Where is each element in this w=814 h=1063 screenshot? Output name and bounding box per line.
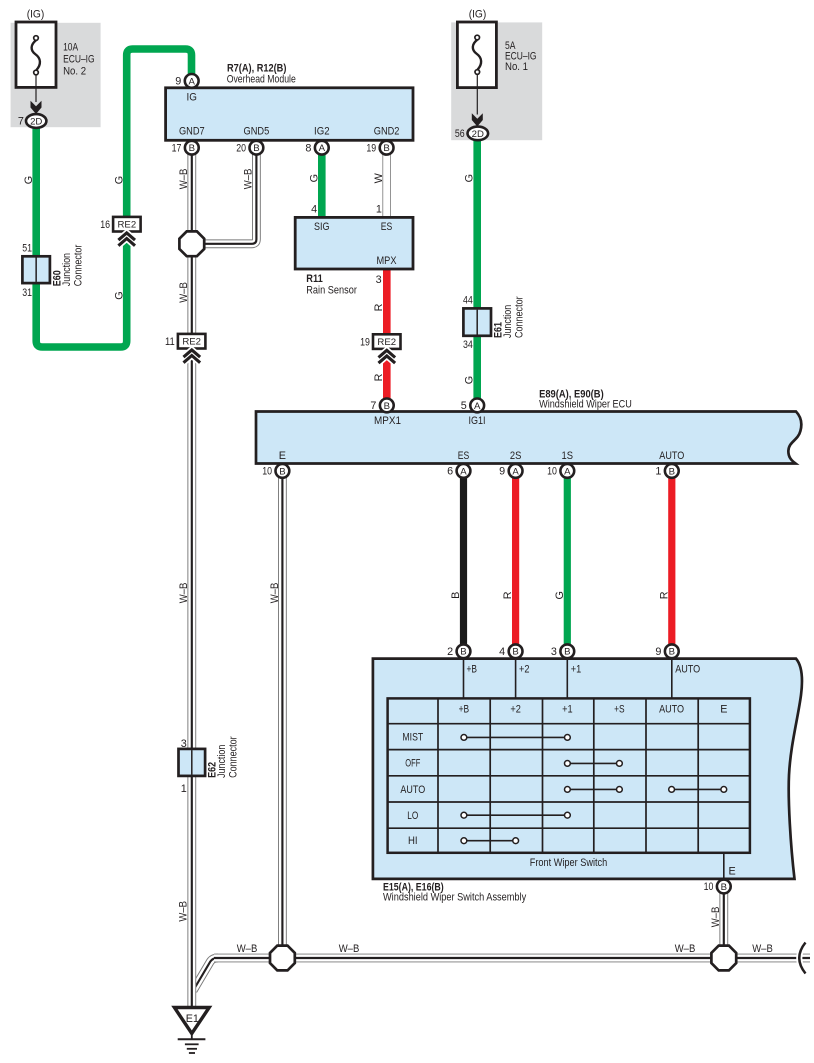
svg-text:SIG: SIG [314,221,330,233]
svg-text:IG1I: IG1I [469,415,486,427]
svg-text:Windshield Wiper Switch Assemb: Windshield Wiper Switch Assembly [383,891,527,903]
svg-text:B: B [460,647,466,658]
svg-text:HI: HI [408,835,418,847]
svg-text:1: 1 [376,204,382,216]
svg-text:11: 11 [165,336,175,348]
svg-text:4: 4 [499,646,505,658]
svg-text:4: 4 [311,204,317,216]
pin 9 A (overhead module top) [175,74,198,88]
wire G: fuse 2D(7) down, across, up through RE2(16), to Overhead Module pin 9A [36,49,191,347]
wire W-B: diagonal from bottom rail to ground wire [193,958,218,991]
svg-text:B: B [512,647,518,658]
windshield wiper ECU E89(A), E90(B) [256,388,801,463]
svg-text:Connector: Connector [72,244,84,286]
svg-text:E1: E1 [186,1013,199,1025]
pin 7 B (MPX1) [370,399,393,413]
svg-text:MPX: MPX [377,255,397,267]
svg-text:8: 8 [305,142,311,154]
pin 8 A (IG2) [305,141,328,155]
svg-text:W: W [373,172,385,183]
svg-text:AUTO: AUTO [659,704,684,716]
svg-text:17: 17 [172,142,182,154]
svg-text:GND7: GND7 [179,126,205,138]
svg-text:AUTO: AUTO [659,450,684,462]
pin 6 A (ES) [447,464,470,478]
svg-text:Rain Sensor: Rain Sensor [306,285,357,297]
fuse 10A ECU-IG No.2 [16,9,95,114]
svg-text:10: 10 [547,466,557,478]
svg-text:G: G [554,591,566,599]
svg-text:R: R [373,373,385,381]
pin 1 B (ECU AUTO) [655,464,678,478]
svg-text:44: 44 [463,294,473,306]
svg-text:+B: +B [467,664,478,676]
svg-text:B: B [450,592,462,599]
svg-text:5: 5 [461,400,467,412]
switch contacts MIST row (+B to +1) [461,735,570,741]
wire W-B: bottom horizontal rail [214,954,810,963]
svg-text:B: B [279,466,285,477]
svg-text:W–B: W–B [752,943,773,955]
svg-text:B: B [721,882,727,893]
svg-text:W–B: W–B [237,943,258,955]
svg-text:10: 10 [262,466,272,478]
connector 2D pin 56 (right fuse) [455,127,488,141]
windshield wiper switch assembly E15(A), E16(B) [373,659,802,904]
svg-text:20: 20 [236,142,246,154]
svg-text:A: A [460,466,467,477]
wire G: ECU 1S 10A to switch +1 3B [564,470,571,652]
junction connector E61 [463,294,526,351]
svg-text:Connector: Connector [514,296,526,338]
svg-text:R: R [502,591,514,599]
fuse 5A ECU-IG No.1 [457,9,536,127]
svg-text:+B: +B [459,704,470,716]
pin 19 B (GND2) [366,141,393,155]
svg-text:+S: +S [614,704,625,716]
svg-text:7: 7 [370,400,376,412]
svg-text:B: B [669,466,675,477]
svg-text:2D: 2D [30,117,42,128]
svg-text:B: B [669,647,675,658]
pin 20 B (GND5) [236,141,263,155]
svg-text:E: E [729,866,736,878]
pin 10 B (switch E bottom) [704,880,731,894]
svg-text:W–B: W–B [243,169,255,190]
svg-text:(IG): (IG) [27,9,45,21]
svg-text:No. 1: No. 1 [505,61,528,73]
svg-text:Windshield Wiper ECU: Windshield Wiper ECU [539,398,632,410]
svg-text:A: A [512,466,519,477]
switch contacts LO row (+B to +1) [461,812,570,818]
svg-text:10: 10 [704,881,714,893]
svg-text:IG2: IG2 [314,126,330,138]
connector RE2 (16) on G wire [100,217,140,246]
svg-text:56: 56 [455,128,465,140]
ground E1 [174,1008,209,1054]
svg-text:A: A [474,401,481,412]
svg-text:G: G [464,376,476,384]
switch contacts AUTO row (+1 to +S) [565,787,623,793]
svg-text:2S: 2S [510,450,522,462]
junction octagon (bottom rail right) [711,946,736,971]
svg-text:19: 19 [366,142,376,154]
svg-text:W–B: W–B [675,943,696,955]
front wiper switch contact table [388,698,750,852]
svg-text:MIST: MIST [402,732,423,744]
junction connector E60 [22,243,84,299]
svg-text:31: 31 [22,287,32,299]
svg-text:R: R [658,591,670,599]
pin 5 A (IG1I) [461,399,484,413]
svg-text:B: B [253,143,259,154]
svg-text:34: 34 [463,339,473,351]
svg-text:W–B: W–B [710,907,722,928]
svg-text:OFF: OFF [405,758,420,770]
svg-text:Connector: Connector [228,736,240,778]
pin 3 B (switch +1) [551,644,574,658]
svg-text:W–B: W–B [177,901,189,922]
svg-text:2D: 2D [472,129,484,140]
svg-text:LO: LO [407,810,418,822]
wire W-B: GND7 pin 17B down through RE2(11), E62 to ground E1 [187,150,196,1008]
svg-text:GND2: GND2 [374,126,400,138]
pin 17 B (GND7) [172,141,199,155]
svg-text:AUTO: AUTO [675,664,700,676]
svg-text:W–B: W–B [178,583,190,604]
svg-text:MPX1: MPX1 [374,415,401,427]
svg-text:B: B [384,401,390,412]
tear mark on bottom rail right [799,943,805,974]
svg-text:2: 2 [447,646,453,658]
svg-text:W–B: W–B [178,282,190,303]
svg-text:1: 1 [181,783,187,795]
pin 9 B (switch AUTO) [655,644,678,658]
svg-text:10A: 10A [63,42,79,54]
wire G: fuse 2D(56) through E61 to ECU pin 5A [473,139,481,400]
svg-text:9: 9 [175,76,181,88]
svg-text:IG: IG [187,92,197,104]
connector RE2 (11) on W-B wire [165,334,205,363]
svg-text:+1: +1 [562,704,573,716]
svg-text:19: 19 [360,336,370,348]
svg-text:ES: ES [458,450,470,462]
fuse block background (left, ECU-IG No.2) [11,23,101,127]
junction octagon (bottom rail left) [270,946,295,971]
svg-text:W–B: W–B [269,583,281,604]
svg-text:7: 7 [18,116,24,128]
pin 4 B (switch +2) [499,644,522,658]
svg-text:E: E [720,704,727,716]
svg-text:G: G [23,176,35,184]
svg-text:B: B [564,647,570,658]
svg-text:3: 3 [551,646,557,658]
pin 2 B (switch +B) [447,644,470,658]
svg-text:AUTO: AUTO [400,784,425,796]
pin 10 A (1S) [547,464,574,478]
svg-text:Front Wiper Switch: Front Wiper Switch [530,857,608,869]
svg-text:Overhead Module: Overhead Module [227,73,296,85]
wire R: ECU 2S 9A to switch +2 4B [512,470,519,652]
svg-text:+1: +1 [571,664,582,676]
svg-text:+2: +2 [519,664,530,676]
svg-text:Junction: Junction [216,745,228,778]
svg-text:GND5: GND5 [244,126,270,138]
overhead module R7(A), R12(B) [166,63,413,141]
wire G: IG2 pin 8A to rain sensor SIG [318,150,326,218]
svg-text:W–B: W–B [178,169,190,190]
rain sensor R11 [295,204,413,297]
svg-text:16: 16 [100,219,110,231]
fuse block background (right, ECU-IG No.1) [451,22,542,140]
switch E output line and caption [530,853,736,879]
svg-text:No. 2: No. 2 [63,66,86,78]
pin 9 A (2S) [499,464,522,478]
junction octagon (GND7/GND5 wires) [179,231,204,256]
svg-text:3: 3 [376,274,382,286]
svg-text:9: 9 [655,646,661,658]
wire W-B: GND5 pin 20B down and left into junction octagon [203,150,256,244]
svg-text:3: 3 [181,738,187,750]
svg-text:6: 6 [447,466,453,478]
svg-text:R11: R11 [306,273,323,285]
svg-text:Junction: Junction [61,253,73,286]
svg-text:51: 51 [22,243,32,255]
svg-text:ECU–IG: ECU–IG [63,54,95,66]
connector 2D pin 7 (left fuse) [18,114,47,128]
switch contacts OFF row (+1 to +S) [565,761,623,767]
wire W-B: switch pin E 10B down to bottom rail octagon [719,888,728,958]
svg-text:1S: 1S [562,450,574,462]
pin 10 B (ECU E) [262,464,289,478]
svg-text:R: R [373,303,385,311]
svg-text:1: 1 [655,466,661,478]
svg-text:A: A [319,143,326,154]
svg-text:E: E [279,450,286,462]
svg-text:Junction: Junction [502,305,514,338]
svg-text:(IG): (IG) [469,9,487,21]
svg-text:A: A [188,76,195,87]
svg-text:W–B: W–B [339,943,360,955]
svg-text:B: B [189,143,195,154]
wire R: rain sensor MPX(3) through RE2(19) to ECU pin 7B [383,266,391,400]
switch contacts HI row (+B to +2) [461,838,519,844]
svg-text:+2: +2 [510,704,521,716]
svg-text:ES: ES [381,221,393,233]
svg-text:A: A [564,466,571,477]
svg-text:G: G [114,291,126,299]
wire W: GND2 pin 19B to rain sensor ES [382,150,390,218]
svg-text:G: G [308,174,320,182]
connector RE2 (19) on R wire [360,334,400,363]
wire W-B: ECU pin E 10B down to bottom rail octagon [278,474,287,958]
svg-text:B: B [383,143,389,154]
svg-text:9: 9 [499,466,505,478]
junction connector E62 [179,736,240,795]
wire R: ECU AUTO 1B to switch AUTO 9B [668,470,675,652]
wire B: ECU ES 6A to switch +B 2B [460,470,467,652]
svg-text:G: G [464,174,476,182]
svg-text:G: G [114,176,126,184]
switch contacts AUTO row (AUTO to E) [669,787,727,793]
